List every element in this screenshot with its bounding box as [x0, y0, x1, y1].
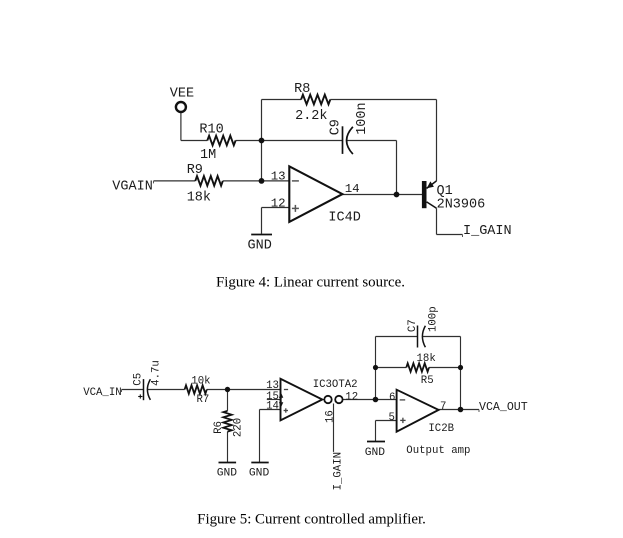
- svg-text:Figure 4: Linear current sourc: Figure 4: Linear current source.: [216, 274, 405, 290]
- svg-text:R7: R7: [197, 394, 210, 406]
- svg-text:4.7u: 4.7u: [150, 360, 162, 386]
- svg-text:14: 14: [266, 401, 279, 413]
- svg-text:IC2B: IC2B: [428, 423, 454, 435]
- svg-text:R8: R8: [294, 82, 310, 97]
- svg-text:VEE: VEE: [170, 87, 194, 102]
- svg-text:Q1: Q1: [437, 184, 453, 199]
- svg-text:18k: 18k: [417, 353, 436, 365]
- svg-text:IC3OTA2: IC3OTA2: [313, 379, 358, 391]
- svg-text:100n: 100n: [355, 102, 370, 134]
- svg-text:220: 220: [233, 418, 245, 437]
- svg-text:18k: 18k: [187, 191, 211, 206]
- svg-text:GND: GND: [249, 467, 270, 479]
- svg-text:VCA_IN: VCA_IN: [83, 387, 121, 399]
- svg-text:I_GAIN: I_GAIN: [333, 452, 345, 490]
- svg-text:14: 14: [345, 182, 360, 196]
- svg-text:12: 12: [345, 391, 358, 403]
- svg-text:2.2k: 2.2k: [295, 109, 327, 124]
- svg-text:1M: 1M: [200, 148, 216, 163]
- svg-text:5: 5: [389, 412, 395, 424]
- svg-text:VGAIN: VGAIN: [112, 179, 153, 194]
- svg-text:VCA_OUT: VCA_OUT: [479, 401, 528, 414]
- svg-text:GND: GND: [248, 239, 272, 254]
- svg-text:R6: R6: [213, 421, 225, 434]
- svg-text:I_GAIN: I_GAIN: [463, 224, 512, 239]
- svg-text:10k: 10k: [191, 376, 210, 388]
- svg-text:12: 12: [271, 196, 286, 210]
- svg-text:13: 13: [271, 169, 286, 183]
- svg-text:C9: C9: [329, 119, 344, 135]
- svg-text:13: 13: [266, 380, 279, 392]
- svg-text:100p: 100p: [427, 306, 439, 332]
- svg-text:16: 16: [324, 410, 336, 423]
- svg-text:R10: R10: [199, 122, 223, 137]
- svg-text:R5: R5: [421, 375, 434, 387]
- svg-text:GND: GND: [217, 467, 238, 479]
- svg-text:2N3906: 2N3906: [437, 198, 486, 213]
- svg-text:6: 6: [389, 392, 395, 404]
- svg-text:C5: C5: [132, 373, 144, 386]
- svg-text:GND: GND: [365, 447, 386, 459]
- svg-text:R9: R9: [187, 163, 203, 178]
- svg-text:7: 7: [440, 401, 446, 413]
- svg-text:Figure 5: Current controlled a: Figure 5: Current controlled amplifier.: [197, 511, 426, 527]
- svg-text:C7: C7: [407, 319, 419, 332]
- svg-text:IC4D: IC4D: [328, 211, 360, 226]
- svg-text:Output amp: Output amp: [406, 445, 470, 457]
